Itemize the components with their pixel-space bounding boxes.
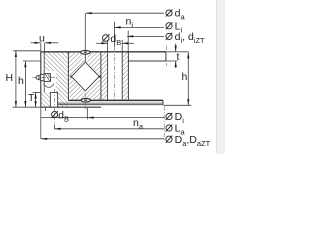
svg-text:Da,DaZT: Da,DaZT xyxy=(175,134,211,148)
svg-text:ni: ni xyxy=(126,16,134,30)
svg-text:h: h xyxy=(18,75,24,87)
svg-text:t: t xyxy=(177,51,180,63)
svg-text:dB: dB xyxy=(110,33,121,47)
svg-text:dB: dB xyxy=(58,109,69,123)
svg-text:na: na xyxy=(133,117,144,131)
svg-text:h: h xyxy=(182,71,188,83)
svg-text:di, diZT: di, diZT xyxy=(175,31,205,45)
svg-text:T: T xyxy=(28,92,35,104)
svg-text:H: H xyxy=(6,72,14,84)
svg-text:u: u xyxy=(39,33,45,45)
